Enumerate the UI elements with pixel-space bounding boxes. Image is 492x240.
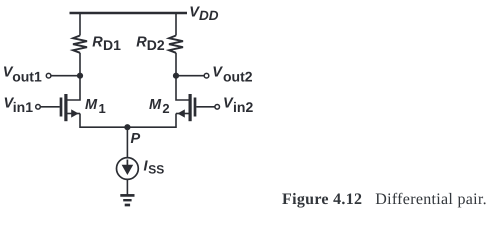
wire: Vin1 terminal to M1 gate xyxy=(40,106,60,108)
RD2 value label xyxy=(136,34,165,53)
wire: RD1 to left output node xyxy=(79,53,81,76)
node P label xyxy=(131,131,141,147)
wire: current source to ground xyxy=(126,179,128,195)
svg-text:D2: D2 xyxy=(147,37,165,53)
wire: junction to Vout1 terminal xyxy=(51,75,81,77)
VDD supply rail xyxy=(70,12,188,15)
svg-text:D1: D1 xyxy=(103,37,121,53)
wire: M1 source down to common rail xyxy=(79,114,81,129)
resistor RD2 xyxy=(169,36,183,53)
ground symbol bar 1 xyxy=(120,194,134,197)
M1 label xyxy=(85,97,106,116)
M2 source wire xyxy=(176,113,190,115)
wire: left junction down to M1 drain xyxy=(66,76,80,100)
svg-text:M: M xyxy=(85,97,98,113)
Vout1 label xyxy=(3,65,42,85)
M2 label xyxy=(149,97,170,116)
terminal Vin1 (open circle) xyxy=(36,105,41,110)
Vout2 label xyxy=(212,64,252,84)
figure caption xyxy=(282,191,487,209)
transistor M2 gate bar xyxy=(194,98,197,117)
current source arrow stem xyxy=(126,160,128,167)
terminal Vin2 (open circle) xyxy=(215,105,220,110)
Vin2 label xyxy=(223,96,253,115)
transistor M1 gate bar xyxy=(60,98,63,117)
node P junction xyxy=(124,124,130,130)
wire: M2 gate to Vin2 terminal xyxy=(196,106,215,108)
transistor M2 channel bar xyxy=(189,94,192,121)
M1 source wire xyxy=(66,113,80,115)
current source ISS circle xyxy=(117,158,139,180)
svg-text:in1: in1 xyxy=(13,99,33,115)
node: right drain junction xyxy=(173,73,179,79)
M1 source arrow xyxy=(71,109,78,117)
wire: VDD rail to RD1 xyxy=(79,13,81,36)
VDD label xyxy=(189,5,218,23)
wire: right junction down to M2 drain xyxy=(176,76,190,100)
svg-text:R: R xyxy=(92,34,103,50)
wire: RD2 to right output node xyxy=(175,53,177,76)
svg-text:P: P xyxy=(131,131,141,147)
svg-text:V: V xyxy=(212,64,223,80)
terminal Vout1 (open circle) xyxy=(46,73,51,78)
ground symbol bar 2 xyxy=(123,199,131,201)
svg-text:in2: in2 xyxy=(233,99,253,115)
terminal Vout2 (open circle) xyxy=(204,73,209,78)
Vin1 label xyxy=(4,96,34,115)
svg-text:R: R xyxy=(136,34,147,50)
wire: junction to Vout2 terminal xyxy=(176,75,204,77)
svg-text:SS: SS xyxy=(148,162,164,176)
M2 source arrow xyxy=(177,109,184,117)
svg-text:out2: out2 xyxy=(223,68,253,84)
transistor M1 channel bar xyxy=(64,94,67,121)
svg-text:DD: DD xyxy=(199,8,219,23)
RD1 value label xyxy=(92,34,121,53)
wire: VDD rail to RD2 xyxy=(175,13,177,36)
svg-text:1: 1 xyxy=(99,101,106,116)
wire: common source rail xyxy=(80,126,176,128)
svg-text:2: 2 xyxy=(162,101,169,116)
wire: node P to current source xyxy=(126,127,128,157)
svg-text:out1: out1 xyxy=(12,69,42,85)
wire: M2 source down to common rail xyxy=(175,114,177,129)
ground symbol bar 3 xyxy=(125,204,130,207)
svg-text:M: M xyxy=(149,97,162,113)
node: left drain junction xyxy=(77,73,83,79)
ISS label xyxy=(144,158,165,176)
current source arrow head xyxy=(122,165,134,175)
resistor RD1 xyxy=(73,36,87,53)
